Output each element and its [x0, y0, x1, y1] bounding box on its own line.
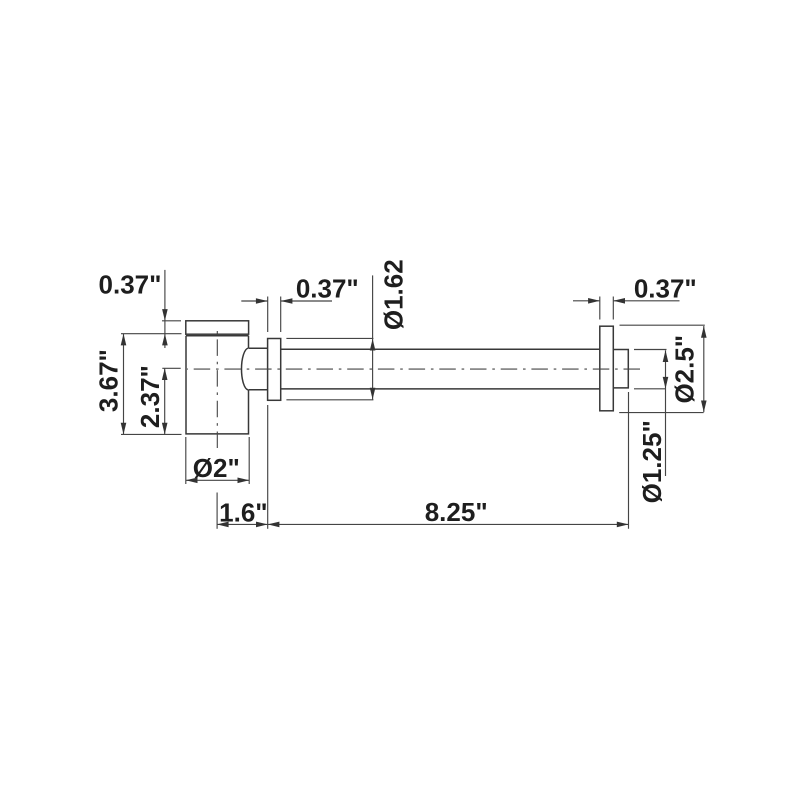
ext line cap bottom / body top	[121, 333, 182, 335]
dim 0.37 top-left: vertical leader with down arrow	[164, 270, 166, 334]
ext line body axis lower	[216, 493, 218, 529]
dim 0.37 middle: right leader arrow	[281, 300, 332, 302]
dim 8.25: dim line with outward arrows	[268, 523, 629, 525]
dim 0.37 top-left: lower up arrow	[164, 334, 166, 348]
ext lines right flange faces	[599, 297, 601, 320]
ext line cap top	[162, 320, 181, 322]
ext lines left flange OD	[286, 337, 373, 339]
left flange	[268, 339, 281, 401]
socket bump (rounded cap)	[241, 348, 267, 390]
dim 2.37: dim line with arrows	[164, 368, 166, 434]
svg-text:0.37": 0.37"	[99, 270, 162, 300]
pipe bottom edge	[281, 388, 600, 390]
right flange	[600, 326, 614, 411]
ext lines right flange OD	[620, 324, 705, 326]
svg-text:0.37": 0.37"	[634, 273, 697, 303]
ext lines body OD	[185, 437, 187, 484]
trap body cap (lid)	[186, 321, 249, 334]
trap body (cylinder)	[186, 336, 249, 434]
svg-text:Ø1.25": Ø1.25"	[637, 420, 667, 503]
dim Ø2.5: vertical dim line with arrows	[703, 326, 705, 412]
dim 0.37 right: left leader arrow	[573, 300, 600, 302]
dim 0.37 middle: left leader arrow	[241, 300, 267, 302]
ext line body bottom	[121, 433, 182, 435]
body top seam line	[186, 335, 249, 337]
svg-text:2.37": 2.37"	[135, 365, 165, 428]
dim 1.6: dim line with outward arrows	[217, 523, 268, 525]
pipe top edge	[281, 348, 600, 350]
svg-text:3.67": 3.67"	[94, 349, 124, 412]
ext lines left flange faces	[267, 297, 269, 333]
dim Ø2: dim line with outward arrows	[186, 479, 249, 481]
svg-text:8.25": 8.25"	[425, 497, 488, 527]
outlet stub	[613, 350, 628, 388]
dim 0.37 right: right leader arrow	[613, 300, 679, 302]
dim Ø1.25: vertical dim line with arrows	[665, 350, 667, 476]
vertical centerline (body axis)	[216, 326, 218, 449]
svg-text:Ø1.62: Ø1.62	[379, 259, 409, 330]
ext line centerline left	[162, 367, 180, 369]
horizontal centerline (pipe axis)	[187, 368, 641, 370]
ext line left flange face lower	[267, 405, 269, 529]
dim Ø1.62: vertical dim line	[372, 275, 374, 399]
dim 3.67: dim line with arrows	[123, 334, 125, 435]
svg-text:Ø2.5": Ø2.5"	[670, 335, 700, 404]
ext lines stub OD	[634, 349, 667, 351]
svg-text:0.37": 0.37"	[296, 274, 359, 304]
svg-text:Ø2": Ø2"	[193, 453, 240, 483]
ext line stub end lower	[628, 392, 630, 529]
